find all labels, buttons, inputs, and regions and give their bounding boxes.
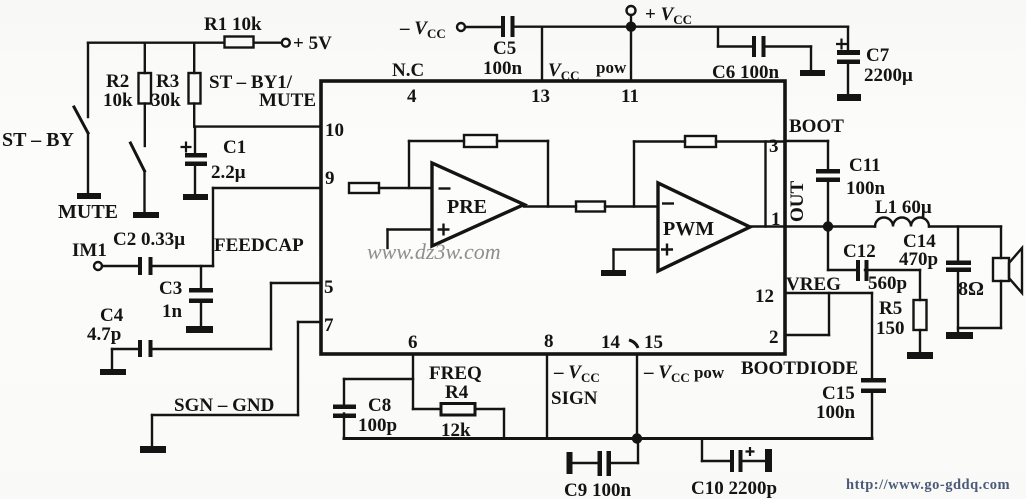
svg-text:L1 60μ: L1 60μ (875, 197, 932, 218)
svg-text:470p: 470p (899, 249, 938, 270)
svg-text:C5: C5 (493, 38, 516, 59)
svg-text:C10 2200p: C10 2200p (691, 478, 777, 499)
svg-text:N.C: N.C (392, 60, 424, 81)
svg-text:BOOT: BOOT (789, 116, 844, 137)
svg-text:10: 10 (325, 120, 344, 141)
svg-text:C6 100n: C6 100n (712, 62, 779, 83)
svg-text:FEEDCAP: FEEDCAP (214, 235, 304, 256)
svg-text:13: 13 (531, 86, 550, 107)
svg-text:R1 10k: R1 10k (204, 14, 262, 35)
svg-text:4.7p: 4.7p (87, 324, 121, 345)
svg-text:VREG: VREG (786, 274, 841, 295)
svg-text:pow: pow (596, 58, 627, 77)
svg-text:15: 15 (644, 332, 663, 353)
svg-text:C15: C15 (822, 383, 855, 404)
svg-text:2200μ: 2200μ (864, 65, 913, 86)
svg-text:R4: R4 (445, 382, 469, 403)
svg-text:C3: C3 (159, 278, 182, 299)
svg-text:2.2μ: 2.2μ (211, 162, 246, 183)
svg-text:150: 150 (876, 318, 905, 339)
svg-text:6: 6 (408, 332, 418, 353)
svg-text:MUTE: MUTE (259, 90, 316, 111)
svg-text:MUTE: MUTE (58, 201, 118, 223)
svg-text:11: 11 (621, 86, 639, 107)
svg-text:100n: 100n (846, 178, 886, 199)
svg-text:30k: 30k (151, 90, 181, 111)
svg-text:http://www.go-gddq.com: http://www.go-gddq.com (846, 477, 1010, 493)
svg-text:– VCC: – VCC (553, 362, 600, 385)
svg-text:R3: R3 (156, 71, 179, 92)
svg-text:BOOTDIODE: BOOTDIODE (741, 358, 858, 379)
svg-text:C1: C1 (223, 137, 246, 158)
svg-text:C7: C7 (866, 45, 890, 66)
svg-text:C2 0.33μ: C2 0.33μ (113, 229, 185, 250)
svg-text:12: 12 (755, 286, 774, 307)
svg-text:PRE: PRE (447, 196, 487, 218)
svg-text:8: 8 (544, 331, 554, 352)
svg-text:7: 7 (324, 315, 334, 336)
svg-text:10k: 10k (103, 90, 133, 111)
svg-text:SGN – GND: SGN – GND (174, 395, 274, 416)
svg-text:C4: C4 (100, 305, 124, 326)
svg-text:– VCC: – VCC (399, 18, 446, 41)
svg-text:14: 14 (601, 332, 621, 353)
svg-text:C11: C11 (849, 155, 881, 176)
svg-text:560p: 560p (868, 273, 907, 294)
svg-text:+ VCC: + VCC (645, 4, 692, 27)
svg-text:3: 3 (769, 136, 779, 157)
svg-text:100n: 100n (816, 402, 856, 423)
svg-text:100p: 100p (358, 415, 397, 436)
svg-text:C9 100n: C9 100n (564, 480, 631, 499)
svg-text:12k: 12k (441, 420, 471, 441)
svg-text:1n: 1n (162, 301, 183, 322)
svg-text:SIGN: SIGN (551, 388, 598, 409)
svg-text:100n: 100n (483, 58, 523, 79)
svg-text:9: 9 (325, 168, 335, 189)
svg-text:PWM: PWM (663, 218, 714, 240)
svg-text:1: 1 (771, 209, 781, 230)
svg-text:+ 5V: + 5V (293, 33, 332, 54)
svg-text:VCC: VCC (548, 60, 579, 83)
svg-text:R2: R2 (106, 71, 129, 92)
svg-text:www.dz3w.com: www.dz3w.com (367, 239, 501, 264)
svg-text:IM1: IM1 (72, 240, 107, 261)
svg-text:OUT: OUT (787, 181, 808, 223)
svg-text:C12: C12 (843, 241, 876, 262)
svg-text:R5: R5 (879, 298, 902, 319)
svg-text:ST – BY: ST – BY (2, 129, 74, 151)
svg-text:5: 5 (324, 277, 334, 298)
svg-text:C8: C8 (368, 395, 391, 416)
svg-text:FREQ: FREQ (429, 363, 482, 384)
svg-text:4: 4 (407, 86, 417, 107)
svg-text:– VCC pow: – VCC pow (643, 362, 725, 385)
svg-text:8Ω: 8Ω (958, 278, 984, 300)
svg-text:2: 2 (769, 327, 779, 348)
